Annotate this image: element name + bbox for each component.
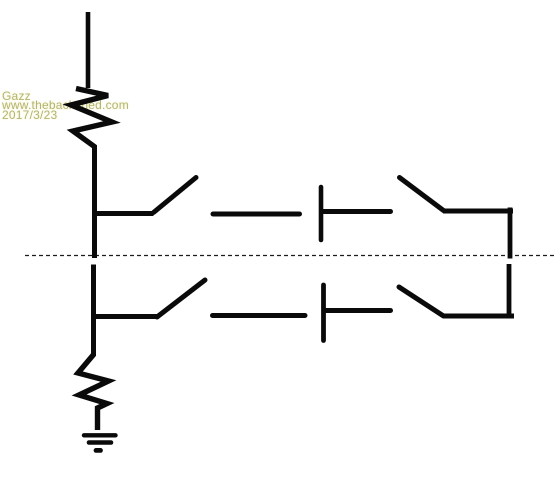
wire top feed xyxy=(86,12,91,88)
wire lower right xyxy=(443,314,514,319)
watermark text Gazz www.thebackshed.com 2017/3/23 xyxy=(2,92,129,120)
ground bar 1 xyxy=(84,433,116,437)
ground bar 2 xyxy=(89,440,111,445)
capacitor C2 plate xyxy=(321,285,326,341)
switch S1 arm xyxy=(154,178,197,213)
ground bar 3 xyxy=(96,448,101,453)
wire upper right xyxy=(443,209,513,214)
node lower junction xyxy=(92,314,157,319)
switch S4 arm xyxy=(399,287,444,316)
switch S3 arm xyxy=(157,280,205,317)
wire C1 to S2 xyxy=(322,209,391,214)
switch S2 arm xyxy=(400,178,444,211)
node upper junction xyxy=(92,211,154,216)
wire upper middle xyxy=(213,212,300,217)
wire right vertical upper xyxy=(508,208,513,259)
wire lower middle xyxy=(213,313,306,318)
wire left vertical lower xyxy=(91,265,96,357)
resistor R2 xyxy=(78,354,109,430)
wire C2 to S4 xyxy=(326,308,391,313)
capacitor C1 plate xyxy=(319,187,324,240)
resistor R1 xyxy=(71,89,112,148)
dashed centerline xyxy=(25,255,555,257)
wire right vertical lower xyxy=(507,264,512,318)
wire left vertical upper xyxy=(92,145,97,258)
